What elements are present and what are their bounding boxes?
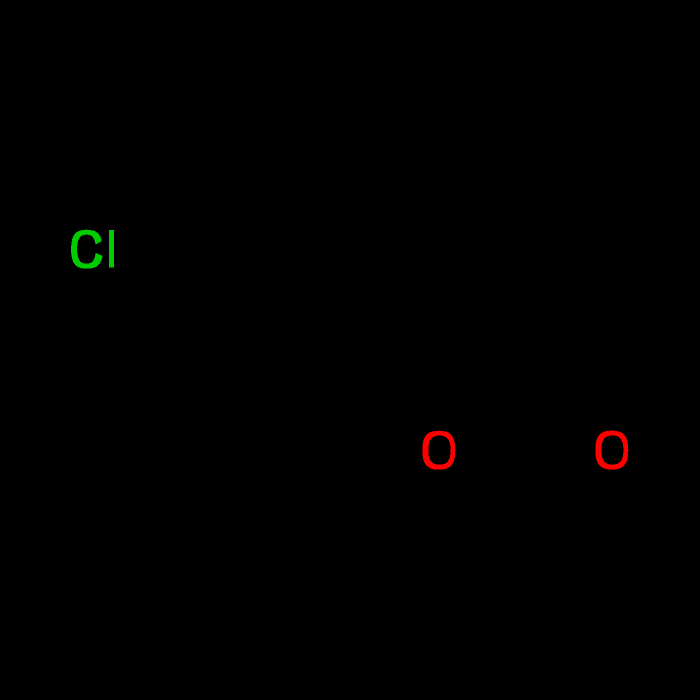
benzene ring bond C3-C4 — [177, 200, 183, 300]
benzene ring bond C5-C6 — [267, 150, 354, 200]
bond C3-Cl — [117, 263, 180, 300]
atom label Cl (chlorine, green) — [71, 230, 119, 269]
atom label O2 (carbonyl oxygen, red) — [595, 431, 628, 470]
bond O1-C8 (carbonyl carbon) — [453, 472, 525, 500]
atom label O1 (ester oxygen, red) — [422, 431, 455, 470]
benzene ring bond C6-C1 (double) — [340, 200, 354, 300]
bond C1-C7 (benzylic CH2) — [354, 300, 440, 350]
benzene ring bond C2-C3 (double) — [180, 296, 267, 350]
benzene ring bond C4-C5 (double) — [180, 150, 267, 204]
bond C8=O2 (carbonyl double bond) — [518, 450, 590, 500]
bond C7-O1 (ester oxygen) — [439, 350, 440, 424]
benzene ring bond C1-C2 — [267, 300, 354, 350]
bond C8-C9 (methyl) — [522, 500, 528, 600]
